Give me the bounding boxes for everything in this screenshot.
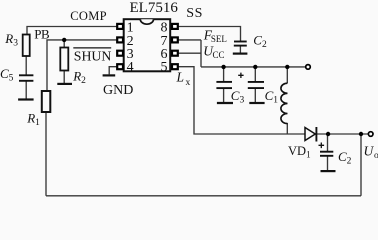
pin 5 stub <box>172 64 178 69</box>
svg-text:o: o <box>374 151 378 161</box>
capacitor C2 soft-start <box>234 42 247 46</box>
node junction dot PB/R2 <box>62 38 66 42</box>
plus sign C1 <box>238 73 243 78</box>
resistor R2 <box>60 48 68 71</box>
pin 2 stub <box>117 37 123 42</box>
pin 3 stub <box>117 51 123 56</box>
wire output node down <box>360 134 362 196</box>
resistor R3 <box>23 35 30 57</box>
resistor R1 <box>42 91 51 112</box>
wire pin5 Lx to diode anode <box>173 67 305 134</box>
pin 6 stub <box>172 51 178 56</box>
wire bottom rail <box>46 195 361 197</box>
wire C2 soft-start to ground <box>239 46 241 53</box>
svg-text:CC: CC <box>213 50 225 60</box>
ground under R2 <box>57 83 72 85</box>
svg-text:U: U <box>364 144 375 159</box>
wire C2 output to ground <box>327 156 329 171</box>
wire pin4 to ground <box>109 67 116 75</box>
wire pin8 SS to C2 soft-start <box>173 27 241 42</box>
pin 7 stub <box>172 37 178 42</box>
wire C5 to ground <box>25 81 27 99</box>
inductor L coil <box>281 83 288 123</box>
wire R3 to C5 <box>25 56 27 75</box>
svg-text:5: 5 <box>161 60 168 75</box>
wire R2 branch from node <box>63 40 65 48</box>
node dot diode/C2 output <box>326 132 330 136</box>
svg-text:PB: PB <box>34 27 50 42</box>
svg-text:SEL: SEL <box>211 34 227 44</box>
ground at pin 4 <box>103 74 116 76</box>
wire pin1 COMP to R3 <box>27 27 117 35</box>
capacitor C2 output <box>320 152 333 156</box>
ground under C5 <box>18 98 33 100</box>
wire diode cathode to output <box>317 133 369 135</box>
wire C1 branch <box>254 67 256 82</box>
wire inductor bottom <box>286 123 288 134</box>
wire R2 to ground <box>63 71 65 84</box>
wire pin7 FSEL <box>173 39 201 41</box>
input terminal circle <box>306 65 311 70</box>
pin 4 stub <box>117 64 123 69</box>
node dot C3 on rail <box>221 65 225 69</box>
node dot C1 on rail <box>253 65 257 69</box>
svg-text:SS: SS <box>186 6 203 21</box>
node dot inductor on rail <box>285 65 289 69</box>
wire UCC supply rail <box>201 66 306 68</box>
ground under C3 <box>217 102 233 104</box>
svg-text:L: L <box>176 69 185 84</box>
wire pin2 PB line to R1 top <box>47 40 117 91</box>
wire UCC rail riser <box>200 40 202 67</box>
svg-text:x: x <box>186 78 191 88</box>
node dot output <box>359 132 363 136</box>
ground under C2 output <box>321 170 336 172</box>
wire C3 branch <box>223 67 225 82</box>
svg-text:GND: GND <box>103 83 133 98</box>
wire C2 output branch <box>327 134 329 151</box>
ground under C2 soft-start <box>233 52 248 54</box>
wire R1 to bottom rail <box>45 112 47 196</box>
ground under C1 <box>249 102 264 104</box>
pin 1 stub <box>117 24 123 29</box>
wire inductor top <box>286 67 288 83</box>
output terminal circle <box>368 132 373 137</box>
IC notch <box>140 19 153 24</box>
capacitor C1 <box>248 82 264 88</box>
diode VD1 <box>305 127 316 142</box>
svg-text:SHUN: SHUN <box>74 48 112 63</box>
svg-text:EL7516: EL7516 <box>130 0 179 16</box>
label SHUN pin3 with overline <box>73 48 111 64</box>
capacitor C3 <box>216 82 232 88</box>
wire C1 to ground <box>254 88 256 102</box>
svg-text:4: 4 <box>127 60 134 75</box>
plus sign C2 output <box>319 143 325 149</box>
IC U1 EL7516 body <box>124 19 171 71</box>
wire C3 to ground <box>223 88 225 102</box>
capacitor C5 <box>19 75 33 81</box>
wire pin6 UCC <box>173 52 201 54</box>
pin 8 stub <box>172 24 178 29</box>
svg-text:COMP: COMP <box>70 9 107 23</box>
